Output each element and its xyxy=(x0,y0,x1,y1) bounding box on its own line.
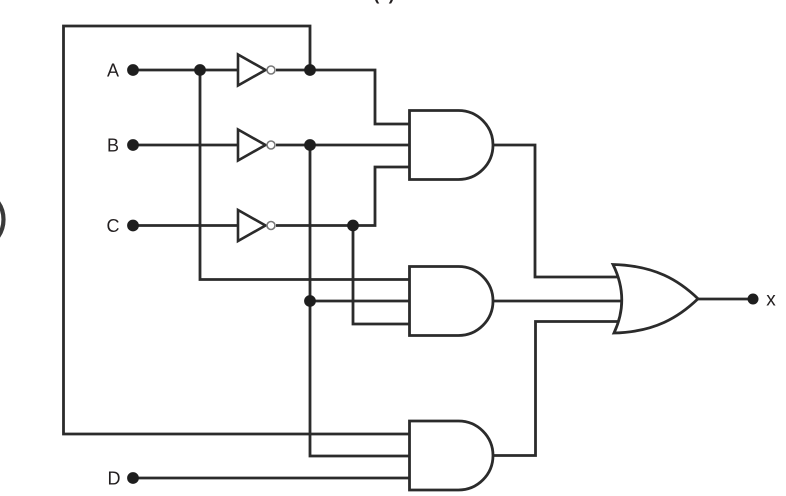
svg-text:C: C xyxy=(107,216,120,236)
svg-text:(a): (a) xyxy=(374,0,395,4)
svg-text:x: x xyxy=(766,290,776,311)
svg-text:A: A xyxy=(107,61,119,81)
svg-text:B: B xyxy=(107,136,119,156)
svg-text:D: D xyxy=(108,469,121,489)
